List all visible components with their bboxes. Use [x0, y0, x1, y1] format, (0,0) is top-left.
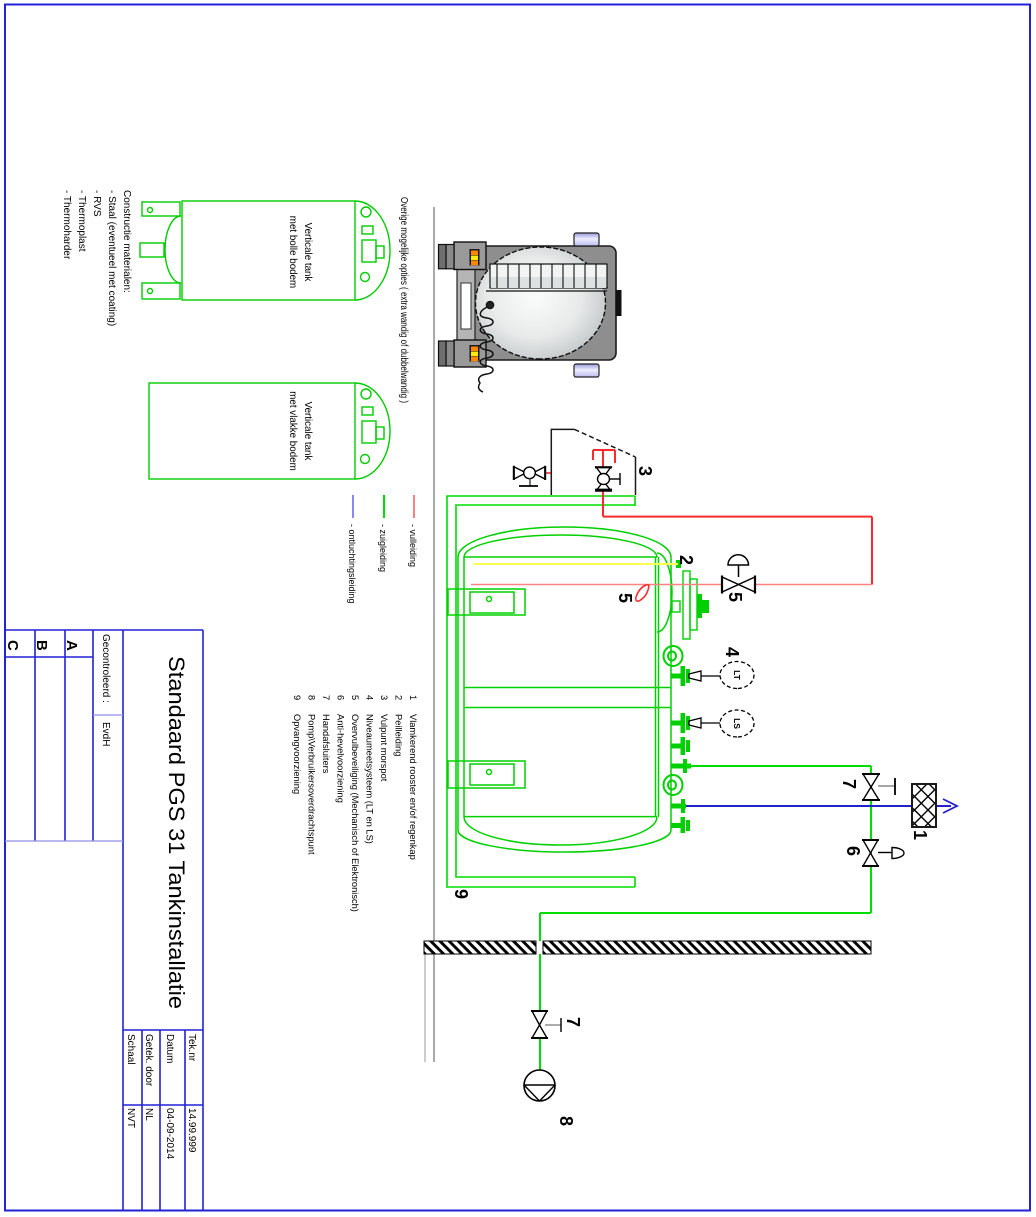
svg-text:met bolle bodem: met bolle bodem — [287, 216, 298, 288]
svg-text:04-09-2014: 04-09-2014 — [164, 1108, 175, 1160]
svg-text:Datum: Datum — [164, 1034, 175, 1063]
svg-text:Peilleiding: Peilleiding — [394, 714, 404, 756]
svg-text:14.99.999: 14.99.999 — [186, 1108, 197, 1153]
svg-text:7: 7 — [839, 779, 859, 789]
svg-text:- RVS: - RVS — [91, 190, 102, 217]
svg-text:2: 2 — [394, 695, 404, 700]
svg-text:6: 6 — [843, 846, 863, 856]
svg-text:Tek.nr: Tek.nr — [186, 1034, 197, 1062]
svg-text:9: 9 — [451, 889, 471, 899]
svg-text:NVT: NVT — [125, 1108, 136, 1128]
svg-text:Pomp\Verbruikersoverdrachtspun: Pomp\Verbruikersoverdrachtspunt — [307, 714, 317, 855]
svg-text:4: 4 — [365, 695, 375, 700]
svg-text:- vulleiding: - vulleiding — [408, 524, 418, 567]
svg-text:5: 5 — [350, 695, 360, 700]
svg-text:3: 3 — [379, 695, 389, 700]
svg-text:met vlakke bodem: met vlakke bodem — [287, 391, 298, 471]
svg-text:6: 6 — [336, 695, 346, 700]
svg-text:9: 9 — [292, 695, 302, 700]
svg-text:Overvulbeveiliging (Mechanisch: Overvulbeveiliging (Mechanisch of Elektr… — [350, 714, 360, 912]
svg-text:Standaard PGS 31 Tankinstallat: Standaard PGS 31 Tankinstallatie — [164, 656, 189, 1009]
svg-text:- Staal (eventueel met coating: - Staal (eventueel met coating) — [106, 190, 117, 326]
svg-text:4: 4 — [722, 647, 742, 657]
svg-text:Overige mogelijke opties ( ext: Overige mogelijke opties ( extra wandig … — [398, 197, 409, 403]
svg-text:- Thermoharder: - Thermoharder — [61, 190, 72, 260]
svg-text:7: 7 — [321, 695, 331, 700]
svg-text:8: 8 — [307, 695, 317, 700]
svg-text:Verticale tank: Verticale tank — [302, 402, 313, 461]
svg-text:Handafsluiters: Handafsluiters — [321, 714, 331, 774]
svg-text:5: 5 — [615, 593, 635, 603]
svg-text:Niveaumeetsysteem (LT en LS): Niveaumeetsysteem (LT en LS) — [365, 714, 375, 844]
svg-text:LT: LT — [732, 670, 742, 681]
svg-text:C: C — [4, 640, 21, 651]
svg-text:LS: LS — [732, 718, 742, 729]
svg-text:- zuigleiding: - zuigleiding — [378, 524, 388, 572]
svg-text:3: 3 — [635, 466, 655, 476]
svg-text:2: 2 — [676, 555, 696, 565]
svg-text:EvdH: EvdH — [100, 722, 111, 746]
svg-text:Vulpunt morspot: Vulpunt morspot — [379, 714, 389, 782]
svg-text:Anti-hevelvoorziening: Anti-hevelvoorziening — [336, 714, 346, 803]
svg-text:- ontluchtingsleiding: - ontluchtingsleiding — [347, 524, 357, 604]
svg-text:Opvangvoorziening: Opvangvoorziening — [292, 714, 302, 794]
svg-text:1: 1 — [408, 695, 418, 700]
svg-text:B: B — [33, 640, 50, 651]
svg-text:- Thermoplast: - Thermoplast — [76, 190, 87, 252]
svg-text:5: 5 — [725, 592, 745, 602]
svg-text:A: A — [63, 640, 80, 651]
svg-text:Schaal: Schaal — [125, 1034, 136, 1065]
svg-text:1: 1 — [910, 830, 930, 840]
svg-text:Gecontroleerd :: Gecontroleerd : — [100, 634, 111, 703]
svg-text:Constructie materialen:: Constructie materialen: — [121, 190, 132, 293]
svg-text:NL: NL — [143, 1108, 154, 1121]
svg-text:Vlamkerend rooster en/of regen: Vlamkerend rooster en/of regenkap — [408, 714, 418, 860]
svg-text:Verticale tank: Verticale tank — [302, 223, 313, 282]
svg-text:7: 7 — [563, 1017, 583, 1027]
svg-text:Getek. door: Getek. door — [143, 1034, 154, 1087]
svg-text:8: 8 — [556, 1116, 576, 1126]
